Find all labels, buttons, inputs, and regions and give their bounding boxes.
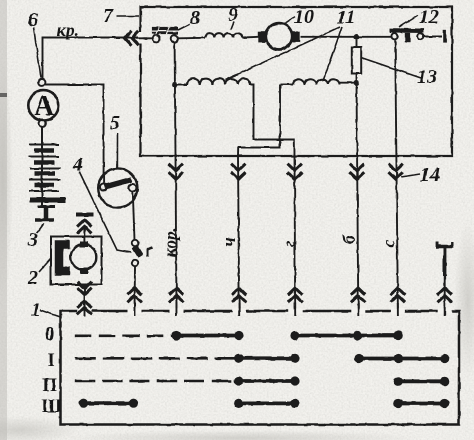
svg-text:4: 4: [72, 154, 83, 176]
svg-text:6: 6: [28, 9, 38, 31]
svg-text:3: 3: [27, 229, 38, 251]
svg-text:2: 2: [27, 267, 38, 289]
svg-text:8: 8: [190, 7, 200, 29]
svg-text:кр.: кр.: [57, 20, 79, 40]
svg-text:кор.: кор.: [160, 227, 180, 257]
svg-text:г: г: [279, 240, 299, 247]
svg-text:12: 12: [419, 6, 439, 28]
svg-text:A: A: [34, 91, 55, 122]
svg-text:Ш: Ш: [42, 397, 62, 417]
svg-text:0: 0: [45, 325, 54, 345]
svg-text:14: 14: [420, 164, 440, 186]
svg-text:10: 10: [294, 6, 314, 28]
svg-text:9: 9: [228, 4, 238, 26]
svg-text:I: I: [48, 351, 55, 371]
svg-text:с: с: [379, 240, 399, 248]
svg-text:5: 5: [110, 112, 120, 134]
svg-text:ч: ч: [219, 237, 239, 246]
svg-text:7: 7: [103, 5, 114, 27]
svg-text:б: б: [339, 234, 359, 244]
svg-text:11: 11: [337, 7, 356, 29]
svg-text:П: П: [43, 376, 58, 396]
svg-text:13: 13: [417, 66, 437, 88]
svg-text:1: 1: [31, 299, 41, 321]
